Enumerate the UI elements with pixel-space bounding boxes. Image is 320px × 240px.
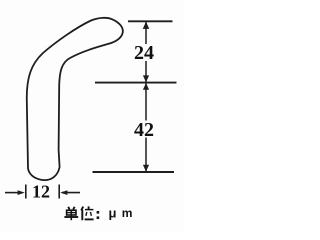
svg-text:42: 42 xyxy=(134,119,154,141)
svg-text:12: 12 xyxy=(32,182,50,202)
svg-text:m: m xyxy=(122,206,133,220)
svg-text:μ: μ xyxy=(109,206,117,221)
svg-text:24: 24 xyxy=(134,42,154,64)
